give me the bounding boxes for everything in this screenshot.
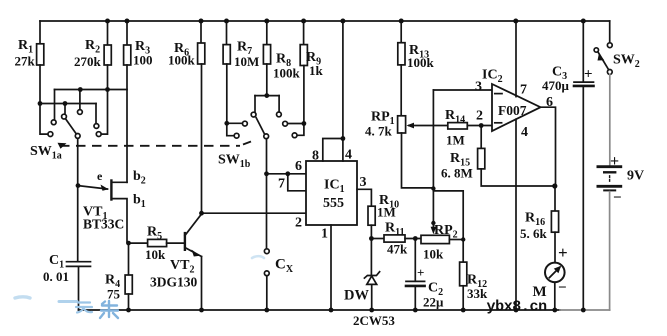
svg-text:0. 01: 0. 01 xyxy=(43,269,69,284)
svg-text:4: 4 xyxy=(345,148,352,163)
svg-text:7: 7 xyxy=(278,177,285,192)
svg-text:555: 555 xyxy=(323,196,344,211)
svg-text:F007: F007 xyxy=(498,103,527,118)
svg-text:2CW53: 2CW53 xyxy=(353,313,395,328)
svg-text:4. 7k: 4. 7k xyxy=(365,124,393,139)
svg-text:+: + xyxy=(417,265,424,280)
svg-text:7: 7 xyxy=(520,83,527,98)
svg-text:75: 75 xyxy=(107,287,121,302)
svg-text:9V: 9V xyxy=(627,169,644,184)
svg-text:6: 6 xyxy=(546,95,553,110)
svg-text:10M: 10M xyxy=(234,54,259,69)
svg-text:3: 3 xyxy=(360,175,367,190)
svg-text:27k: 27k xyxy=(15,54,36,69)
svg-text:+: + xyxy=(558,243,568,262)
svg-text:e: e xyxy=(97,169,103,183)
svg-text:5. 6k: 5. 6k xyxy=(520,226,548,241)
svg-text:ybx8.cn: ybx8.cn xyxy=(487,299,548,316)
svg-text:6. 8M: 6. 8M xyxy=(441,166,473,181)
svg-text:−: − xyxy=(558,280,567,296)
svg-text:47k: 47k xyxy=(387,242,408,257)
svg-text:22μ: 22μ xyxy=(423,295,444,310)
svg-text:3: 3 xyxy=(475,80,482,95)
svg-text:3DG130: 3DG130 xyxy=(150,275,198,290)
svg-text:1k: 1k xyxy=(309,63,324,78)
svg-text:+: + xyxy=(584,67,593,83)
svg-text:DW: DW xyxy=(344,288,369,304)
svg-text:100k: 100k xyxy=(168,53,196,68)
svg-text:4: 4 xyxy=(521,125,528,140)
svg-text:1M: 1M xyxy=(446,133,465,148)
svg-text:−: − xyxy=(613,190,622,206)
svg-text:100: 100 xyxy=(133,53,153,68)
svg-text:100k: 100k xyxy=(407,55,435,70)
svg-text:2: 2 xyxy=(476,109,483,124)
svg-text:270k: 270k xyxy=(74,54,102,69)
svg-text:6: 6 xyxy=(295,159,302,174)
svg-text:470μ: 470μ xyxy=(542,78,570,93)
svg-text:1: 1 xyxy=(321,227,328,242)
svg-text:33k: 33k xyxy=(467,286,488,301)
svg-text:10k: 10k xyxy=(145,247,166,262)
svg-text:10k: 10k xyxy=(423,247,444,262)
svg-text:8: 8 xyxy=(312,149,319,164)
svg-text:1M: 1M xyxy=(377,205,396,220)
svg-text:BT33C: BT33C xyxy=(83,217,124,232)
svg-text:2: 2 xyxy=(295,216,302,231)
svg-text:+: + xyxy=(610,153,619,170)
svg-text:100k: 100k xyxy=(273,66,301,81)
